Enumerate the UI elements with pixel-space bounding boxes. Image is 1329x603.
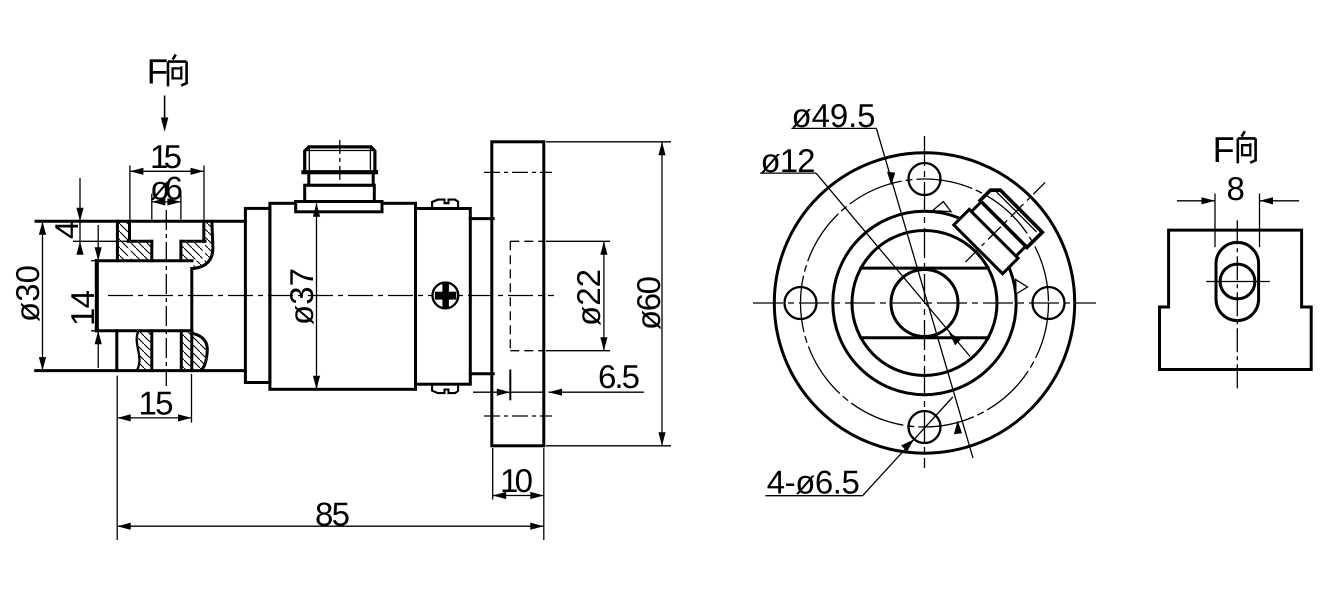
wire: horizontal centerline xyxy=(753,302,1096,304)
node: top surface line y221 xyxy=(36,220,245,223)
middle block top line xyxy=(96,259,192,262)
svg-text:85: 85 xyxy=(315,496,350,533)
connector lower section xyxy=(305,185,375,201)
inner circle xyxy=(1220,264,1255,299)
base plate corner triangle upper xyxy=(933,202,952,212)
underline Ø49.5 xyxy=(791,127,876,129)
hatch: bottom block left of hole xyxy=(137,332,150,369)
counterbore step lines xyxy=(128,240,152,243)
phillips screw outer circle xyxy=(433,283,459,309)
plate outer right edge + fillet arc xyxy=(194,221,213,268)
FRONT VIEW xyxy=(753,97,1096,501)
dim 14: vertical line + outside arrows xyxy=(97,225,99,368)
dim Ø60: ext lines xyxy=(546,141,671,143)
bottom block hole walls xyxy=(150,331,153,371)
horizontal centerline xyxy=(1206,281,1270,283)
svg-text:ø30: ø30 xyxy=(9,265,46,322)
inner circle xyxy=(852,231,997,376)
bolt hole bottom xyxy=(909,411,941,443)
dim Ø60: vertical line + arrows xyxy=(661,142,663,446)
hatch: plate left strip xyxy=(119,223,129,260)
node: bottom surface line y370 xyxy=(36,369,246,372)
dim 10: ext lines xyxy=(492,448,494,500)
dim 15 bottom: line + arrows xyxy=(117,417,191,419)
connector cap bottom heavy line xyxy=(304,170,377,174)
top slotted screw xyxy=(432,200,458,209)
connector cap inner vertical lines xyxy=(308,149,310,171)
flat bottom chord xyxy=(861,336,988,339)
leader Ø49.5 arrow upper xyxy=(887,172,895,186)
collar section xyxy=(245,208,270,382)
dim 4: vertical line + outside arrows xyxy=(79,178,81,244)
middle block right edge down through bottom block xyxy=(190,269,193,371)
leader Ø49.5 line xyxy=(876,128,973,458)
obround slot xyxy=(1216,242,1259,320)
bolt hole left xyxy=(785,287,817,319)
phillips cross horizontal bar xyxy=(435,292,456,300)
leader Ø12 arrow xyxy=(949,332,961,345)
svg-text:F: F xyxy=(1213,129,1235,170)
bolt hole top xyxy=(909,163,941,195)
svg-text:4-ø6.5: 4-ø6.5 xyxy=(767,464,860,501)
leader Ø49.5 arrow lower xyxy=(954,420,962,434)
dim Ø37: vertical line + arrows xyxy=(316,203,318,389)
leader 4-Ø6.5 line xyxy=(863,397,953,496)
hatch: counterbore step left block xyxy=(131,243,151,260)
svg-text:6.5: 6.5 xyxy=(598,358,640,395)
hidden recess dashed bottom xyxy=(510,350,544,352)
hidden recess dashed left wall xyxy=(509,241,511,350)
small cylinder top/bottom lines xyxy=(470,217,493,220)
dim 6.5: right segment + arrow xyxy=(549,391,644,393)
bottom slotted screw xyxy=(432,384,458,393)
dim 15 top: ext lines xyxy=(129,165,131,219)
phillips cross vertical bar xyxy=(442,282,449,309)
step extension line to left (thin) xyxy=(73,240,128,242)
wire: horizontal centerline xyxy=(108,295,554,297)
svg-text:8: 8 xyxy=(1227,170,1245,207)
SIDE VIEW xyxy=(36,140,554,446)
vertical centerline xyxy=(1236,220,1238,391)
clevis top plate left edge xyxy=(116,221,119,260)
dim Ø6: ext lines xyxy=(151,194,153,220)
main body rect xyxy=(270,203,416,389)
pin hole walls in plate xyxy=(150,241,153,260)
DIMENSIONS side view xyxy=(9,53,671,541)
bottom block wavy break line xyxy=(137,332,140,371)
hatch: bottom block right of hole xyxy=(183,332,206,369)
F arrow down xyxy=(164,96,166,123)
connector middle section xyxy=(971,202,1025,256)
wire: clevis vertical centerline xyxy=(165,210,167,386)
dim 15 bottom: ext lines xyxy=(116,376,118,540)
dim Ø30: vertical line + arrows xyxy=(42,221,44,370)
outline block xyxy=(1160,230,1312,369)
body circle (Ø37) xyxy=(833,211,1016,394)
hub edge short line xyxy=(509,371,511,400)
dim 15 top: line + arrows xyxy=(130,170,204,172)
dim 8: left line+arrow xyxy=(1177,200,1215,202)
leader 4-Ø6.5 arrow xyxy=(901,439,914,451)
dim Ø22: vertical line + arrows xyxy=(603,241,605,350)
hatch: plate right strip + fillet region xyxy=(193,223,212,268)
flange bolt circle dashdot top xyxy=(484,171,552,173)
svg-text:F: F xyxy=(147,53,168,92)
center circle Ø12 xyxy=(891,270,958,337)
dim 10: line + arrows xyxy=(493,495,544,497)
connector axis dash line xyxy=(966,182,1046,262)
leader Ø12 line xyxy=(816,173,970,356)
svg-text:ø60: ø60 xyxy=(630,276,667,330)
hidden recess dashed top xyxy=(510,240,544,242)
connector cap inner lines xyxy=(996,191,1037,232)
dim Ø22: ext lines xyxy=(546,240,610,242)
bottom block right bulge arc xyxy=(192,333,207,370)
dim Ø6: line + arrows xyxy=(152,201,181,203)
svg-text:15: 15 xyxy=(139,385,174,422)
counterbore left wall xyxy=(128,221,131,241)
flange outer circle xyxy=(774,153,1074,453)
flange rect xyxy=(492,142,544,446)
dim 85: line + arrows xyxy=(117,525,544,527)
bolt hole right xyxy=(1033,287,1065,319)
wire: vertical centerline xyxy=(924,136,926,468)
connector cap xyxy=(980,190,1042,247)
screw section rect xyxy=(416,209,471,385)
base plate corner triangle lower xyxy=(1016,280,1028,295)
dim 8: ext lines xyxy=(1214,194,1216,248)
RIGHT VIEW (F direction) xyxy=(1160,129,1312,392)
svg-text:ø37: ø37 xyxy=(283,268,320,325)
dim 14: ext line bottom xyxy=(91,330,114,332)
svg-text:ø6: ø6 xyxy=(150,170,183,207)
connector cap xyxy=(305,147,375,173)
counterbore right wall xyxy=(202,221,205,241)
svg-text:4: 4 xyxy=(48,221,85,239)
flange bolt circle dashdot bottom xyxy=(484,415,552,417)
svg-text:ø22: ø22 xyxy=(570,269,607,326)
middle block bottom line xyxy=(96,329,192,332)
dim 8: right line+arrow xyxy=(1260,200,1300,202)
connector middle section xyxy=(309,173,373,186)
connector at 45: lower section xyxy=(954,209,1018,273)
bolt circle dashdot xyxy=(801,179,1049,427)
connector centerline xyxy=(339,140,341,185)
middle block left edge xyxy=(95,261,98,331)
underline Ø12 xyxy=(760,172,816,174)
bottom block left edge xyxy=(115,331,118,371)
glyph 向 drawn xyxy=(1238,131,1256,163)
connector base plate xyxy=(296,202,382,212)
flat top chord xyxy=(861,267,988,270)
hatch: counterbore step right block xyxy=(182,243,202,260)
dim 6.5: left arrow segment xyxy=(473,391,544,393)
underline 4-Ø6.5 xyxy=(765,495,862,497)
svg-text:10: 10 xyxy=(500,462,533,499)
svg-text:14: 14 xyxy=(64,290,101,326)
